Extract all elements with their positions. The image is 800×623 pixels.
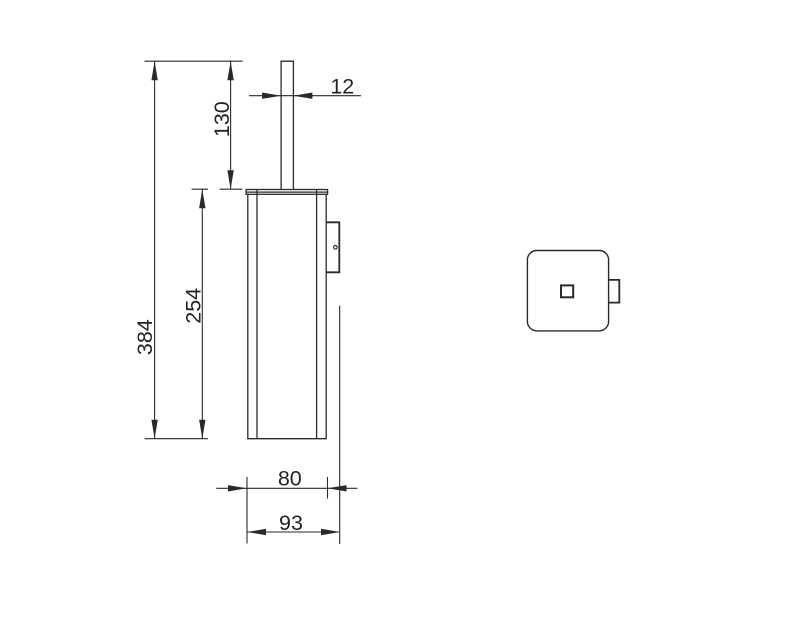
arrow 254 down [199,420,205,439]
arrow 130 down [227,170,233,189]
witness line 80 right [327,477,329,499]
brush handle [281,61,293,189]
dim line 93 [247,531,340,533]
witness line 93 right long [339,306,341,544]
body outer left wall [247,194,249,439]
arrow 80 left [228,485,247,491]
arrow 93 left [247,529,266,535]
body inner left wall [256,190,258,439]
lid mid line [246,191,328,193]
svg-text:254: 254 [181,288,205,324]
svg-text:80: 80 [278,467,302,491]
dim line 130 [230,61,232,189]
svg-text:12: 12 [330,75,354,99]
dim line 80 [216,487,357,489]
arrow 254 up [199,189,205,208]
dim line 254 [201,189,203,439]
arrow 12 left [262,93,281,99]
arrow 384 up [151,61,157,80]
lid flange [246,190,328,195]
top view wall tab [609,280,620,303]
dim line 12 [249,95,361,97]
svg-text:130: 130 [210,101,234,137]
arrow 12 right [293,93,312,99]
extension line at lid top right segment [220,188,243,190]
body inner right wall [316,190,318,439]
arrow 384 down [151,420,157,439]
extension line bottom [145,438,208,440]
arrow 93 right [321,529,340,535]
dim line 384 [154,61,156,439]
body outer right wall [325,194,327,439]
top view mounting square [561,285,573,297]
top view body outline [527,251,608,331]
svg-text:384: 384 [133,319,157,355]
wall bracket [326,222,339,272]
extension line top [145,60,243,62]
arrow 80 right [328,485,347,491]
svg-text:93: 93 [279,511,303,535]
arrow 130 up [227,61,233,80]
witness line 80 left [246,477,248,544]
screw hole [334,246,338,250]
extension line at lid top left segment [192,188,208,190]
body bottom edge [247,438,327,440]
